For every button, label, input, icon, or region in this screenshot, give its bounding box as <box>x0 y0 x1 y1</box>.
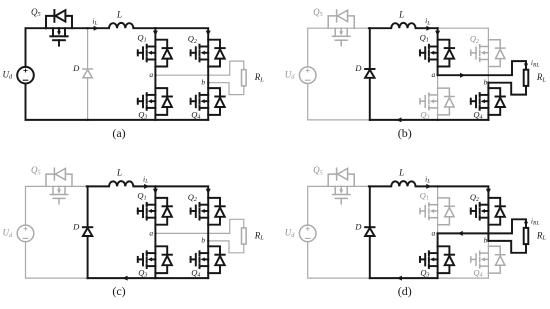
svg-text:(c): (c) <box>112 284 125 298</box>
svg-text:D: D <box>354 221 362 231</box>
svg-text:D: D <box>72 63 80 73</box>
svg-text:b: b <box>484 78 488 87</box>
svg-text:D: D <box>354 63 362 73</box>
svg-text:a: a <box>432 228 436 237</box>
svg-text:L: L <box>116 168 122 178</box>
svg-text:(d): (d) <box>398 284 412 298</box>
svg-text:a: a <box>432 70 436 79</box>
svg-text:(a): (a) <box>112 126 125 140</box>
svg-text:L: L <box>398 168 404 178</box>
svg-text:b: b <box>484 236 488 245</box>
svg-text:a: a <box>149 228 153 237</box>
svg-text:b: b <box>201 78 205 87</box>
svg-text:b: b <box>201 236 205 245</box>
svg-text:L: L <box>116 9 122 19</box>
svg-text:a: a <box>149 70 153 79</box>
svg-text:L: L <box>398 9 404 19</box>
svg-text:(b): (b) <box>398 126 412 140</box>
svg-text:D: D <box>72 221 80 231</box>
